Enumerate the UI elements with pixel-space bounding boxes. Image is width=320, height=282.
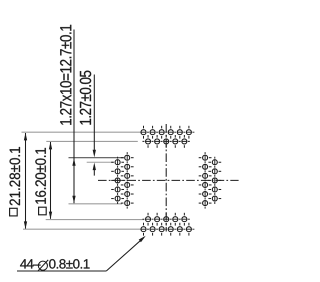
hole left outer column #2 bbox=[115, 169, 120, 174]
hole right outer column #5 bbox=[212, 196, 217, 201]
dimension line 1.27x10=12.7 bbox=[73, 30, 75, 204]
hole top outer row #6 bbox=[186, 130, 191, 135]
centre line through bottom outer hole row bbox=[141, 228, 195, 230]
hole bottom inner row #2 bbox=[155, 217, 160, 222]
hole bottom inner row #4 bbox=[173, 217, 178, 222]
hole left inner column #1 bbox=[125, 155, 130, 160]
hole top outer row #4 bbox=[168, 130, 173, 135]
extension line, bottom inner hole row (16.20 ref, lower) bbox=[46, 219, 144, 221]
centre line through left inner hole column bbox=[126, 151, 128, 208]
centre line through top outer hole row bbox=[141, 131, 195, 133]
extension line, first left outer-column hole (1.27 ref, lower) bbox=[87, 161, 114, 163]
dimension line 21.28 (square) bbox=[25, 133, 27, 229]
dimension label 1.27x10=12.7+-0.1 bbox=[60, 25, 71, 125]
hole left outer column #5 bbox=[115, 196, 120, 201]
hole top outer row #1 bbox=[141, 130, 146, 135]
hole bottom inner row #5 bbox=[182, 217, 187, 222]
hole left inner column #6 bbox=[125, 201, 130, 206]
centre line through top inner hole row bbox=[142, 140, 190, 142]
extension line, last left inner-column hole (12.7 ref, lower) bbox=[69, 203, 123, 205]
dimension label 21.28+-0.1 bbox=[10, 147, 21, 205]
hole right outer column #4 bbox=[212, 187, 217, 192]
horizontal package centre line bbox=[98, 179, 239, 181]
hole bottom outer row #1 bbox=[141, 227, 146, 232]
extension line, top outer hole row (21.28 ref, upper) bbox=[22, 131, 144, 133]
hole right inner column #6 bbox=[203, 201, 208, 206]
hole bottom inner row #1 bbox=[146, 217, 151, 222]
dimension line 1.27 lower tail bbox=[93, 169, 95, 176]
hole left inner column #2 bbox=[125, 164, 130, 169]
centre line through right inner hole column bbox=[204, 151, 206, 208]
hole right inner column #3 bbox=[203, 173, 208, 178]
extension line, first left inner-column hole (12.7 ref, upper) bbox=[69, 157, 125, 159]
hole top inner row #2 bbox=[155, 139, 160, 144]
hole bottom outer row #3 bbox=[159, 227, 164, 232]
dimension label 16.20+-0.1 bbox=[35, 148, 46, 204]
leader line to hole row bbox=[106, 237, 144, 271]
dimension label 1.27+-0.05 bbox=[80, 71, 91, 125]
hole right outer column #3 bbox=[212, 178, 217, 183]
leader underline of 44-dia0.8 label bbox=[17, 270, 106, 272]
hole right inner column #2 bbox=[203, 164, 208, 169]
extension line, bottom outer hole row (21.28 ref, lower) bbox=[23, 228, 144, 230]
square symbol of label 21.28 bbox=[10, 208, 18, 216]
hole left outer column #1 bbox=[115, 160, 120, 165]
hole left outer column #4 bbox=[115, 187, 120, 192]
hole right inner column #5 bbox=[203, 192, 208, 197]
hole count label 44-dia0.8+-0.1 text bbox=[20, 259, 40, 268]
hole right inner column #1 bbox=[203, 155, 208, 160]
hole left outer column #3 bbox=[115, 178, 120, 183]
hole top outer row #2 bbox=[150, 130, 155, 135]
hole top outer row #5 bbox=[177, 130, 182, 135]
diameter symbol bbox=[38, 261, 47, 270]
hole top inner row #4 bbox=[173, 139, 178, 144]
hole right outer column #2 bbox=[212, 169, 217, 174]
centre line through right outer hole column bbox=[214, 157, 216, 204]
hole bottom outer row #4 bbox=[168, 227, 173, 232]
square symbol of label 16.20 bbox=[39, 207, 47, 215]
leader arrowhead bbox=[139, 236, 146, 242]
hole bottom outer row #6 bbox=[186, 227, 191, 232]
hole bottom outer row #5 bbox=[177, 227, 182, 232]
hole top inner row #1 bbox=[146, 139, 151, 144]
hole top inner row #3 bbox=[164, 139, 169, 144]
centre line through bottom inner hole row bbox=[142, 218, 190, 220]
hole left inner column #4 bbox=[125, 182, 130, 187]
centre line through left outer hole column bbox=[117, 157, 119, 204]
hole bottom inner row #3 bbox=[164, 217, 169, 222]
dimension line 16.20 (square) bbox=[50, 142, 52, 219]
hole left inner column #3 bbox=[125, 173, 130, 178]
hole top outer row #3 bbox=[159, 130, 164, 135]
dimension line 1.27 upper part bbox=[93, 75, 95, 151]
hole top inner row #5 bbox=[182, 139, 187, 144]
hole left inner column #5 bbox=[125, 192, 130, 197]
extension line, top inner hole row (16.20 ref, upper) bbox=[46, 140, 138, 142]
hole right inner column #4 bbox=[203, 182, 208, 187]
hole right outer column #1 bbox=[212, 160, 217, 165]
hole bottom outer row #2 bbox=[150, 227, 155, 232]
vertical package centre line bbox=[165, 124, 167, 232]
